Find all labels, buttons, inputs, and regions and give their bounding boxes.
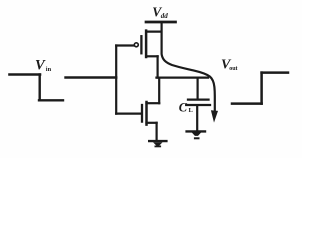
- wire PMOS drain to output node: [157, 56, 159, 77]
- input step waveform falling edge: [39, 75, 41, 101]
- wire output node horizontal: [157, 76, 209, 78]
- capacitor CL bottom plate: [186, 104, 210, 106]
- transistor M2 NMOS drain stub: [147, 102, 160, 104]
- transistor M2 NMOS source stub: [147, 122, 157, 124]
- wire gate bus vertical: [115, 46, 117, 114]
- transistor M1 PMOS gate bubble: [134, 43, 138, 47]
- label Vdd: [152, 5, 168, 21]
- transistor M1 PMOS drain stub: [146, 55, 158, 57]
- current arrowhead: [211, 110, 218, 122]
- capacitor CL bottom lead: [196, 106, 198, 131]
- transistor M2 NMOS gate plate: [141, 105, 143, 122]
- transistor M1 PMOS gate plate: [140, 36, 142, 53]
- capacitor CL top plate: [188, 98, 209, 100]
- transistor M1 PMOS source stub: [146, 31, 161, 33]
- output step waveform high segment: [262, 71, 288, 74]
- ground symbol under CL: [187, 131, 205, 138]
- ground symbol under NMOS: [149, 141, 166, 146]
- output step waveform rising edge: [260, 73, 263, 104]
- capacitor CL top lead: [197, 78, 199, 99]
- input step waveform high segment: [10, 73, 41, 76]
- svg-text:dd: dd: [161, 12, 169, 20]
- Vdd supply rail bar: [146, 21, 176, 24]
- svg-text:C: C: [179, 101, 188, 115]
- wire to NMOS gate: [116, 112, 141, 114]
- wire NMOS drain to output node: [158, 78, 160, 104]
- wire input to inverter: [66, 76, 117, 78]
- svg-text:L: L: [189, 107, 194, 114]
- label CL: [179, 101, 194, 115]
- label Vout: [221, 58, 238, 73]
- transistor M2 NMOS channel plate: [145, 102, 148, 125]
- transistor M1 PMOS channel plate: [145, 31, 148, 57]
- wire to PMOS gate: [116, 44, 134, 46]
- svg-text:in: in: [46, 66, 52, 73]
- label Vin: [35, 58, 52, 74]
- wire NMOS source to ground: [156, 123, 158, 140]
- svg-text:out: out: [229, 66, 237, 72]
- input step waveform low segment: [39, 99, 63, 101]
- charging current path curve with arrow into CL: [162, 23, 215, 112]
- output step waveform low segment: [232, 102, 262, 105]
- svg-text:V: V: [35, 58, 46, 74]
